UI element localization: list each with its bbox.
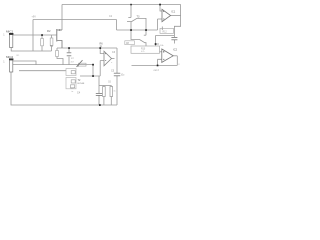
- microphone MIC1: [3, 29, 13, 47]
- svg-text:BC548: BC548: [78, 83, 85, 85]
- wire x93 drop: [92, 65, 94, 76]
- svg-text:IC1: IC1: [171, 10, 176, 14]
- wire vertical x33: [32, 20, 34, 52]
- svg-text:+9V: +9V: [32, 16, 37, 19]
- label R8: [125, 41, 135, 45]
- capacitor C4: [96, 93, 102, 95]
- wire IC3 noninv lead: [100, 48, 104, 54]
- wire output line: [132, 64, 178, 66]
- capacitor C5: [114, 73, 120, 76]
- wire right vertical from rail: [174, 5, 180, 38]
- svg-text:MIC1: MIC1: [6, 29, 13, 33]
- resistor R5 emitter: [56, 51, 59, 57]
- node dot rail T3: [130, 4, 132, 6]
- wire node B horizontal y19: [33, 19, 117, 21]
- connector box P1: [66, 69, 76, 76]
- wire R12 row: [156, 35, 175, 37]
- wire T3 base lead: [127, 21, 132, 23]
- node dot x93 upper: [92, 64, 94, 66]
- transistor T2 arrow: [77, 60, 83, 67]
- box filter: [131, 46, 160, 53]
- wire R11 leads: [110, 86, 112, 106]
- transistor T1: [57, 29, 62, 48]
- wire T4 base feed: [131, 30, 140, 40]
- wire node C y48: [57, 47, 117, 49]
- wire T3 emitter diagonal: [132, 18, 147, 30]
- wire T4 tick: [144, 34, 146, 36]
- wire mic1 bottom rail y51: [11, 48, 51, 52]
- node dot IC2 fb: [157, 65, 159, 67]
- op-amp IC1: [162, 9, 171, 21]
- wire IC2 noninv stub: [160, 51, 162, 53]
- wire C1 leads: [68, 48, 70, 65]
- wire T4 emitter diagonal: [140, 40, 147, 47]
- node dot C1 top: [68, 47, 70, 49]
- wire C7 lower stub: [173, 40, 175, 44]
- wire IC3 inv lead: [100, 61, 104, 77]
- node dot x93: [92, 75, 94, 77]
- wire mic2 upper pin: [13, 61, 36, 65]
- node dot T4 collector: [145, 29, 147, 31]
- microphone MIC2: [3, 55, 13, 72]
- wire Q1 emitter resistor jog: [57, 48, 63, 65]
- wire IC2 output drop: [176, 56, 178, 66]
- wire y19 corner drop: [116, 20, 118, 31]
- capacitor C7: [171, 37, 177, 39]
- wire U1 inv input feedback: [158, 19, 163, 30]
- wire IC3 output stub: [112, 58, 115, 60]
- resistor R4: [50, 38, 53, 46]
- junction dots: [41, 4, 161, 106]
- wire IC2 output: [173, 55, 177, 57]
- wire C4 lower lead: [98, 95, 100, 105]
- wire T3 base drop: [130, 22, 132, 30]
- wire R4 leads: [51, 35, 53, 51]
- wire T3 collector from rail: [130, 5, 132, 18]
- wire C5 column: [116, 48, 118, 105]
- node dot R12: [155, 43, 157, 45]
- node dot ground: [99, 104, 101, 106]
- wire node E y30: [117, 29, 158, 31]
- op-amp IC2: [162, 49, 173, 62]
- resistor R12: [160, 28, 174, 33]
- node dot R6 top: [99, 47, 101, 49]
- svg-text:out 2: out 2: [154, 69, 160, 72]
- wire mic1 signal: [13, 34, 56, 36]
- wire top supply rail: [62, 4, 181, 6]
- wire R9 leads: [103, 86, 105, 106]
- wire R12 drop: [155, 36, 157, 45]
- wire T4 collector: [145, 30, 147, 35]
- svg-text:R2: R2: [47, 29, 51, 33]
- wire T3 tick: [128, 17, 131, 19]
- resistor R11: [110, 87, 113, 97]
- connector box P2: [66, 78, 76, 89]
- svg-text:IC2: IC2: [173, 48, 178, 52]
- node dot mic1 line: [41, 34, 43, 36]
- resistor R3: [41, 39, 44, 46]
- wire C4 upper lead: [98, 76, 100, 93]
- capacitor C1: [67, 53, 72, 56]
- node dot rail U1: [159, 4, 161, 6]
- op-amp IC3: [104, 51, 112, 66]
- wire U1 noninv input: [160, 5, 162, 12]
- svg-text:R12: R12: [163, 32, 168, 34]
- wire node F stubs: [156, 44, 160, 46]
- wire op-amp IC1 output: [171, 15, 181, 17]
- wire IC2 inv feedback: [158, 59, 162, 65]
- wire mic2 lower pin long: [13, 64, 93, 66]
- resistor R9: [103, 87, 106, 97]
- svg-text:MIC2: MIC2: [6, 55, 13, 59]
- wire Q1 collector: [61, 5, 63, 31]
- wire node D y76: [80, 75, 100, 77]
- wire R3 leads: [41, 35, 43, 51]
- node dot T3 base: [130, 29, 132, 31]
- wire R9 R11 top tie: [99, 85, 112, 87]
- wire IC1 inv bottom tick: [161, 27, 163, 31]
- wire ground rail: [11, 72, 117, 105]
- wire y70 stub: [19, 70, 66, 72]
- resistor R7: [79, 63, 87, 66]
